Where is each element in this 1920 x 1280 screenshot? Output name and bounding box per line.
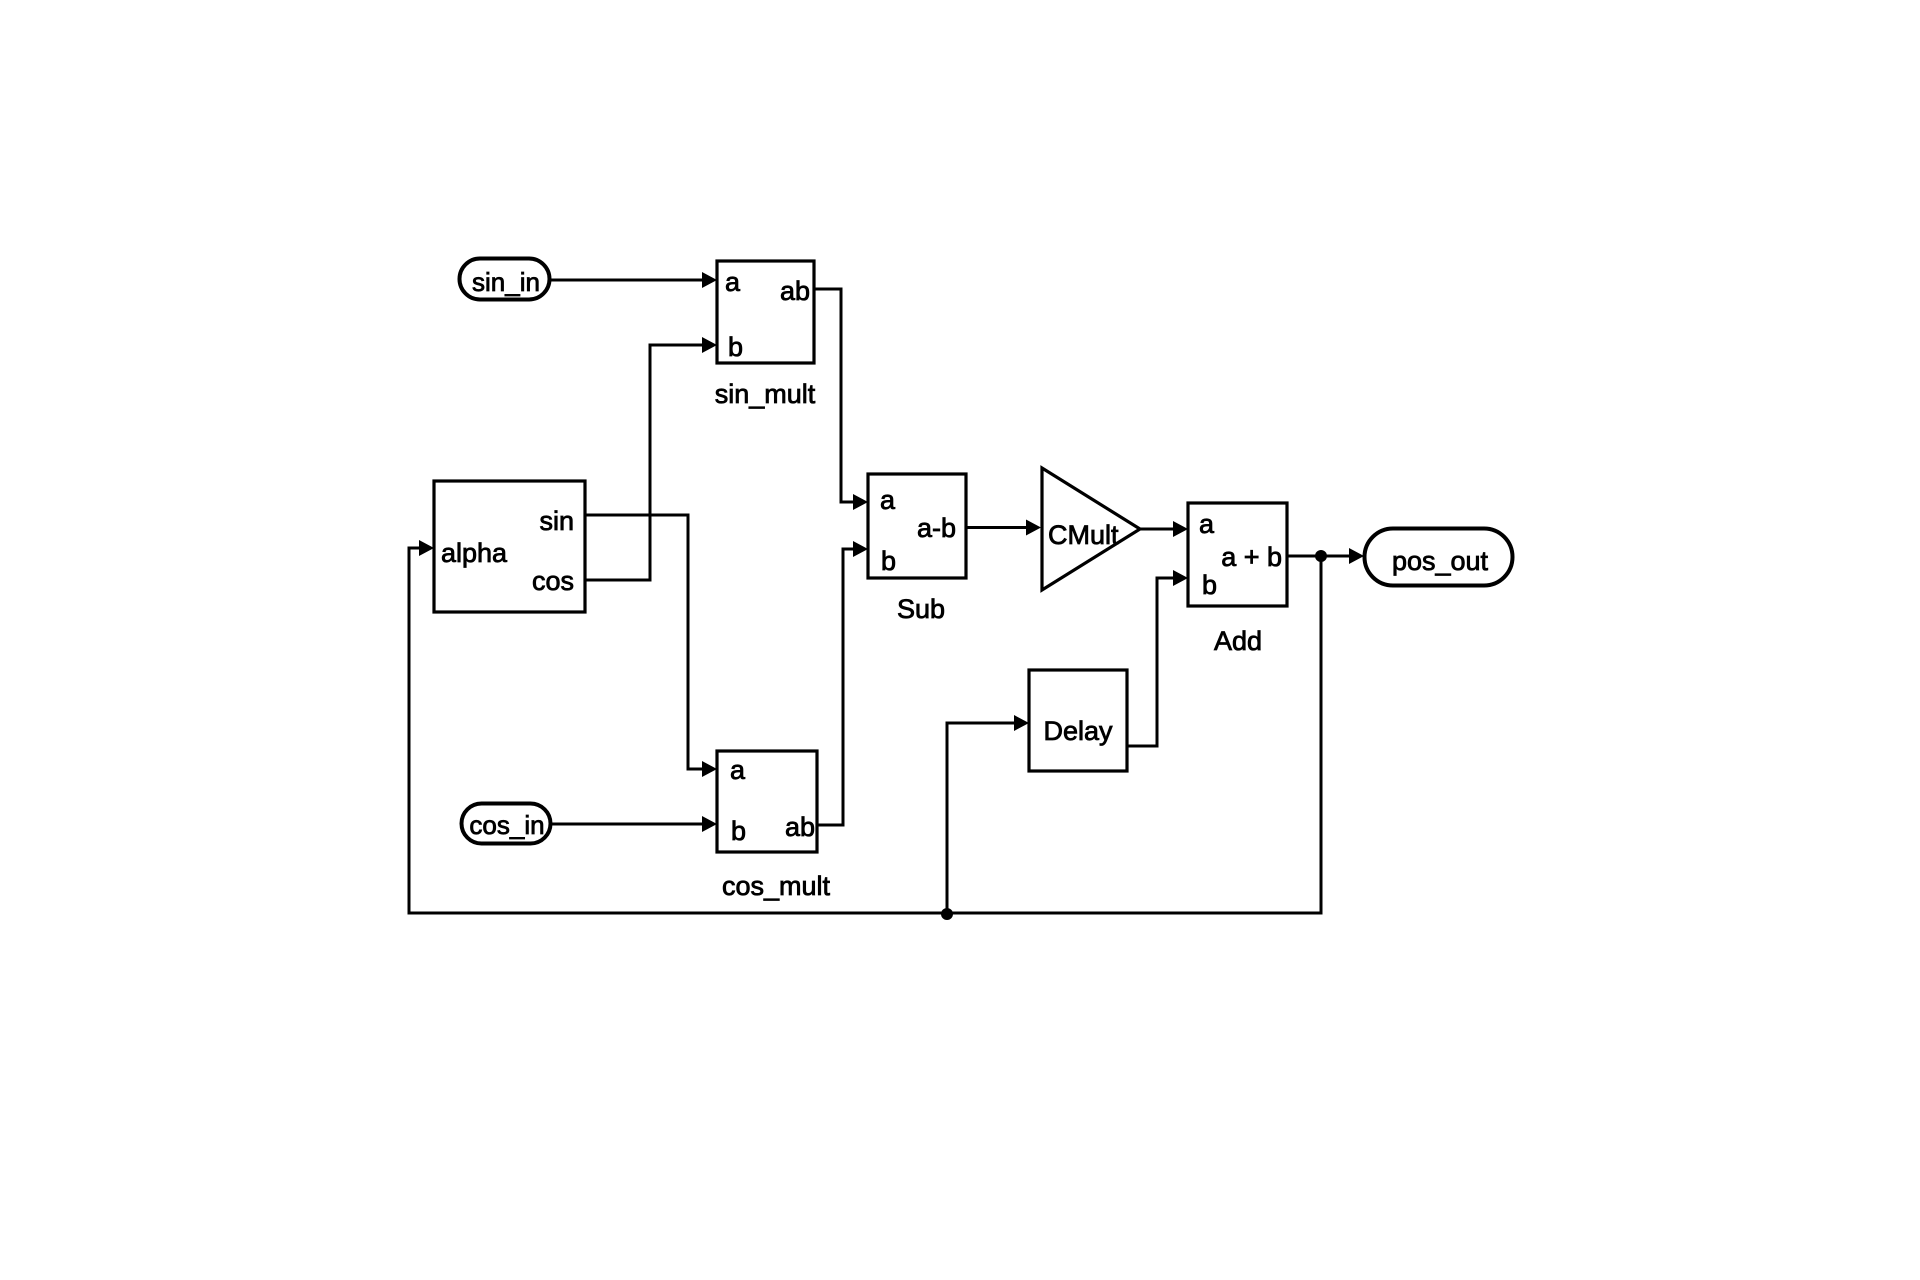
svg-text:cos_mult: cos_mult: [722, 871, 831, 901]
svg-text:Add: Add: [1214, 626, 1262, 656]
svg-text:a: a: [730, 755, 746, 785]
svg-text:ab: ab: [785, 812, 815, 842]
svg-text:Delay: Delay: [1043, 716, 1113, 746]
svg-text:b: b: [728, 332, 743, 362]
svg-text:cos: cos: [532, 566, 574, 596]
svg-text:sin_mult: sin_mult: [715, 379, 816, 409]
svg-text:cos_in: cos_in: [469, 810, 544, 840]
svg-text:pos_out: pos_out: [1392, 546, 1489, 576]
svg-text:alpha: alpha: [441, 538, 508, 568]
svg-text:b: b: [731, 816, 746, 846]
svg-text:Sub: Sub: [897, 594, 945, 624]
svg-text:sin: sin: [539, 506, 574, 536]
svg-text:b: b: [1202, 570, 1217, 600]
svg-text:ab: ab: [780, 276, 810, 306]
svg-text:a: a: [880, 485, 896, 515]
svg-text:a + b: a + b: [1221, 542, 1282, 572]
svg-text:a: a: [725, 267, 741, 297]
svg-text:a: a: [1199, 509, 1215, 539]
svg-text:b: b: [881, 546, 896, 576]
svg-text:CMult: CMult: [1048, 520, 1119, 550]
svg-text:a-b: a-b: [917, 513, 956, 543]
svg-text:sin_in: sin_in: [472, 267, 540, 297]
